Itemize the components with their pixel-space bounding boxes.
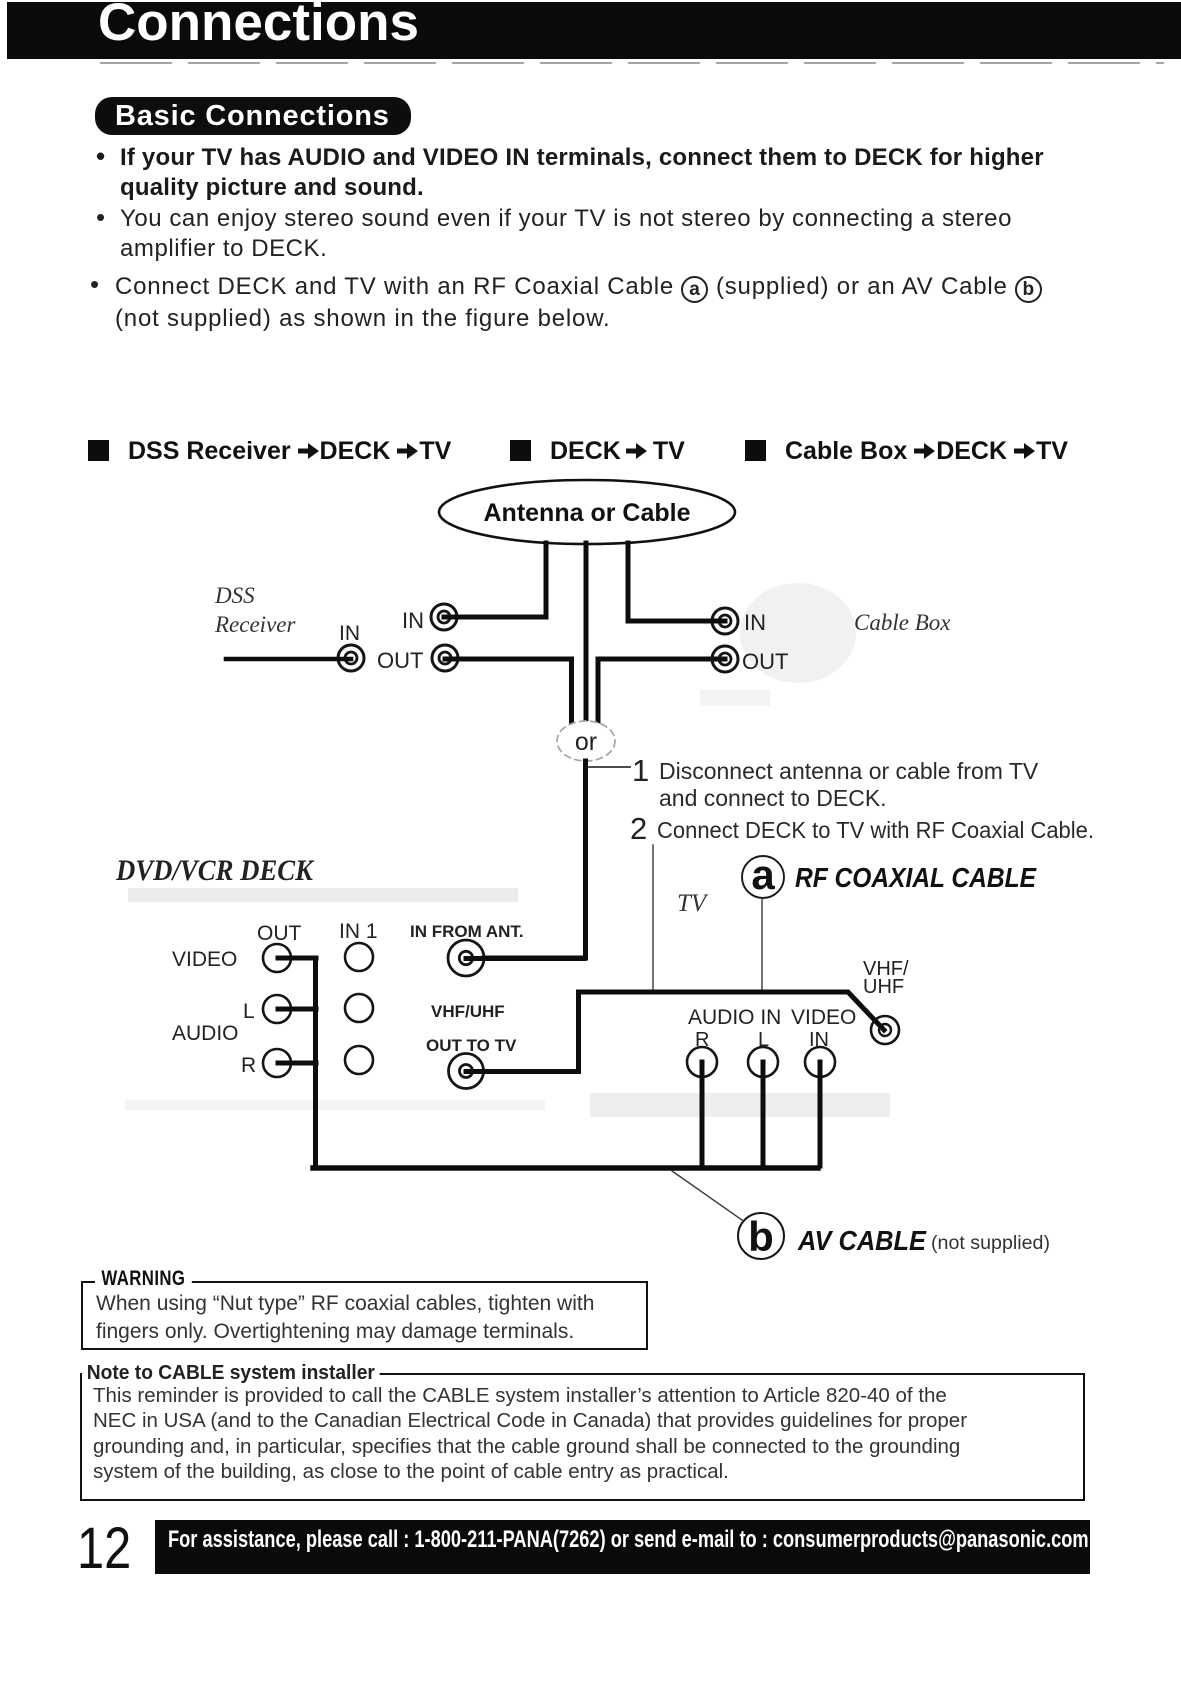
jack TV audio L bbox=[748, 1047, 778, 1077]
three flow headers bbox=[88, 437, 451, 466]
jack IN1 video bbox=[345, 943, 373, 971]
svg-text:DVD/VCR DECK: DVD/VCR DECK bbox=[115, 854, 315, 887]
svg-text:DSS: DSS bbox=[214, 583, 255, 608]
svg-text:and connect to DECK.: and connect to DECK. bbox=[659, 785, 887, 811]
svg-text:IN: IN bbox=[402, 608, 424, 633]
svg-text:OUT: OUT bbox=[742, 649, 788, 674]
svg-text:Connect DECK to TV with RF Coa: Connect DECK to TV with RF Coaxial Cable… bbox=[657, 817, 1094, 843]
connector TV VHF/UHF bbox=[871, 1016, 899, 1044]
wire in-from-ant to riser bbox=[466, 956, 584, 961]
svg-text:R: R bbox=[241, 1054, 256, 1077]
Basic Connections pill bbox=[95, 97, 411, 135]
svg-text:AV CABLE: AV CABLE bbox=[797, 1225, 927, 1256]
connector IN FROM ANT bbox=[448, 940, 484, 976]
connector Cable Box OUT bbox=[712, 646, 738, 672]
jack AUDIO L bbox=[263, 995, 291, 1023]
bullet 2 bbox=[96, 204, 1116, 264]
wire from DSS receiver bbox=[226, 657, 351, 662]
wire TV L down bbox=[761, 1062, 766, 1166]
svg-text:L: L bbox=[243, 1000, 255, 1023]
svg-text:OUT: OUT bbox=[377, 648, 423, 673]
scan smudge band near TV jacks bbox=[590, 1093, 890, 1117]
jack AUDIO R bbox=[263, 1049, 291, 1077]
bullet 1 (bold) bbox=[96, 143, 1116, 203]
svg-text:RF COAXIAL CABLE: RF COAXIAL CABLE bbox=[795, 862, 1037, 893]
pointer line to b bbox=[672, 1171, 742, 1220]
Note box bbox=[80, 1373, 1085, 1501]
top title bar bbox=[7, 2, 1181, 59]
bullet 3 bbox=[90, 271, 1120, 334]
callout line 1 bbox=[589, 766, 630, 768]
callout a circle bbox=[742, 851, 784, 898]
connector deck RF OUT bbox=[432, 645, 458, 671]
wire deck OUT down-left branch bbox=[445, 659, 572, 723]
RF wire deck OUT TO TV to TV VHF/UHF bbox=[466, 992, 884, 1072]
footer assistance bar bbox=[155, 1520, 1090, 1574]
svg-text:a: a bbox=[751, 851, 775, 898]
TV pointer line bbox=[652, 845, 654, 990]
wire TV R down bbox=[700, 1062, 705, 1166]
svg-text:VIDEO: VIDEO bbox=[791, 1006, 856, 1029]
jack TV video IN bbox=[805, 1047, 835, 1077]
page number 12 bbox=[77, 1515, 131, 1582]
stub audio R bbox=[278, 1061, 316, 1066]
svg-text:TV: TV bbox=[677, 890, 709, 917]
svg-text:2: 2 bbox=[630, 811, 647, 846]
connector OUT TO TV bbox=[449, 1054, 484, 1089]
connector Cable Box IN bbox=[712, 608, 738, 634]
svg-text:AUDIO IN: AUDIO IN bbox=[688, 1006, 781, 1029]
svg-text:OUT TO TV: OUT TO TV bbox=[426, 1036, 517, 1055]
stub audio L bbox=[278, 1007, 316, 1012]
WARNING box bbox=[81, 1281, 648, 1350]
scan smudge behind cable box jacks bbox=[700, 583, 856, 706]
jack IN1 R bbox=[345, 1046, 373, 1074]
wire antenna center down bbox=[584, 543, 589, 722]
svg-text:IN FROM ANT.: IN FROM ANT. bbox=[410, 922, 524, 941]
pointer line from a bbox=[761, 898, 763, 990]
svg-text:Receiver: Receiver bbox=[214, 612, 296, 637]
svg-text:AUDIO: AUDIO bbox=[172, 1022, 239, 1045]
svg-text:Cable Box: Cable Box bbox=[854, 610, 951, 635]
svg-text:VIDEO: VIDEO bbox=[172, 948, 237, 971]
AV bus bottom horizontal bbox=[313, 1165, 818, 1170]
svg-text:OUT: OUT bbox=[257, 922, 302, 945]
callout b circle bbox=[738, 1213, 784, 1260]
wire antenna to Cable Box IN bbox=[628, 543, 725, 621]
svg-text:b: b bbox=[748, 1213, 774, 1260]
svg-text:IN 1: IN 1 bbox=[339, 920, 378, 943]
node or bbox=[557, 721, 615, 761]
wire or down to deck IN FROM ANT bbox=[484, 761, 586, 958]
svg-text:IN: IN bbox=[744, 610, 766, 635]
svg-text:or: or bbox=[575, 728, 597, 756]
svg-text:Disconnect antenna or cable fr: Disconnect antenna or cable from TV bbox=[659, 758, 1039, 784]
svg-text:IN: IN bbox=[339, 622, 360, 645]
svg-text:1: 1 bbox=[632, 753, 649, 788]
deck AV bus vertical bbox=[313, 958, 318, 1168]
stub video out bbox=[278, 956, 316, 961]
scan smudge under DVD/VCR DECK title bbox=[128, 888, 518, 902]
svg-text:Antenna or Cable: Antenna or Cable bbox=[484, 499, 691, 527]
svg-text:UHF: UHF bbox=[863, 976, 904, 998]
node: Antenna or Cable bbox=[439, 480, 735, 544]
connector deck RF IN bbox=[431, 604, 457, 630]
jack TV audio R bbox=[687, 1047, 717, 1077]
jack IN1 L bbox=[345, 994, 373, 1022]
jack VIDEO OUT bbox=[263, 944, 291, 972]
wire TV video down bbox=[818, 1062, 823, 1166]
svg-text:VHF/UHF: VHF/UHF bbox=[431, 1002, 505, 1021]
wire cable box OUT down branch bbox=[598, 659, 725, 723]
svg-text:(not supplied): (not supplied) bbox=[931, 1232, 1050, 1254]
connector DSS receiver jack bbox=[338, 645, 364, 671]
wire deck RF IN to antenna bbox=[444, 543, 546, 617]
